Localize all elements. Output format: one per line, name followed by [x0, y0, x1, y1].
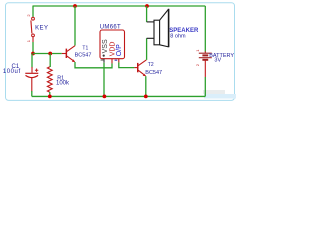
node junction R1 bottom [48, 95, 52, 99]
svg-text:UM66T: UM66T [100, 24, 121, 30]
pin 3 O/P stub [115, 59, 118, 61]
pin 1 VSS stub [103, 59, 105, 63]
svg-text:VSS: VSS [102, 39, 109, 53]
battery BT1 3V [195, 49, 235, 66]
svg-text:100k: 100k [56, 80, 70, 86]
wire KEY bottom lead [32, 37, 34, 42]
wire bottom rail GND [32, 95, 206, 97]
transistor Q T2 BC547 [134, 60, 162, 76]
pin 2 VDD stub [111, 59, 113, 64]
wire R1 top lead [49, 54, 51, 68]
resistor R1 [47, 67, 70, 92]
node junction R1 top [48, 52, 52, 56]
op-amp U1 UM66T box [100, 24, 125, 58]
node junction speaker top [145, 4, 149, 8]
wire T2 emitter to ground [145, 76, 147, 96]
wire KEY top lead [32, 6, 34, 17]
wire C1 bottom lead [31, 91, 33, 96]
svg-text:3V: 3V [214, 57, 221, 63]
node junction T2 emitter ground [144, 95, 148, 99]
wire O/P to T2 base [119, 62, 135, 67]
switch KEY [26, 14, 49, 43]
wire battery bottom lead [204, 60, 206, 77]
transistor Q T1 BC547 [62, 45, 92, 62]
svg-text:BATTERY: BATTERY [209, 53, 234, 59]
wire top rail VCC [33, 5, 205, 7]
wire R1 bottom lead [49, 92, 51, 96]
node junction left [31, 52, 35, 56]
svg-text:100uf: 100uf [3, 69, 21, 75]
wire T1 collector [74, 6, 76, 46]
node junction T1 collector top [73, 4, 77, 8]
svg-text:BC547: BC547 [145, 70, 162, 76]
svg-text:KEY: KEY [35, 25, 48, 31]
wire T1 emitter [75, 62, 112, 68]
wire speaker top lead [146, 6, 148, 22]
wire base net horizontal [33, 53, 62, 55]
svg-text:BC547: BC547 [75, 52, 92, 58]
svg-text:8 ohm: 8 ohm [170, 33, 186, 39]
capacitor C1 [3, 64, 38, 92]
wire battery top lead [204, 6, 206, 52]
svg-text:1: 1 [26, 39, 31, 42]
wire VSS to ground [103, 63, 105, 97]
wire C1 top lead [31, 54, 33, 68]
wire speaker bottom to T2 collector [146, 38, 148, 60]
watermark smudge [203, 90, 225, 94]
node junction VSS ground [103, 95, 107, 99]
svg-text:T2: T2 [148, 62, 154, 68]
svg-text:O/P: O/P [116, 44, 123, 56]
speaker LS1 [147, 9, 199, 47]
svg-text:T1: T1 [82, 45, 88, 51]
